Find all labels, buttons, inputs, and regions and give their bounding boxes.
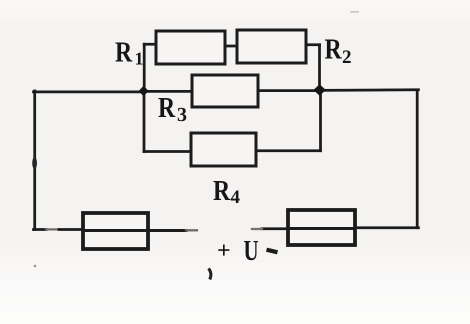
wire: left vertical bbox=[33, 91, 36, 230]
wire: faded end of left fuse wire bbox=[186, 229, 197, 231]
wire: bottom middle right of gap bbox=[262, 227, 289, 230]
resistor R2 bbox=[237, 30, 306, 63]
wire: through right fuse bbox=[288, 227, 355, 230]
wire: into R1 box bbox=[144, 43, 157, 46]
wire: connector R1-R2 bbox=[225, 45, 239, 48]
wire: top branch right vertical bbox=[318, 45, 321, 90]
wire: R4 branch right horizontal bbox=[255, 149, 321, 152]
wire: right node to R3 bbox=[258, 89, 320, 92]
wire: R4 branch right vertical bbox=[319, 91, 322, 151]
wire: bottom right bbox=[355, 226, 418, 229]
node B (right junction) bbox=[313, 84, 325, 96]
fuse left bbox=[83, 213, 148, 249]
fuse right bbox=[288, 210, 355, 245]
label R4 bbox=[213, 181, 239, 203]
label - (supply polarity) bbox=[267, 250, 278, 253]
wire: R2 box to top right vertical bbox=[306, 43, 320, 46]
wire: R4 branch left vertical bbox=[143, 91, 146, 152]
ink knot on left vertical wire bbox=[32, 157, 37, 169]
wire: right vertical bbox=[416, 90, 419, 228]
wire: through left fuse and out bbox=[83, 229, 186, 232]
label U (supply) bbox=[244, 241, 258, 260]
stray scan mark below U bbox=[209, 269, 211, 280]
label R3 bbox=[158, 98, 186, 121]
wire: left node to R3 bbox=[144, 90, 194, 93]
node A (left junction) bbox=[139, 86, 149, 96]
wire: bottom left to fuse part 2 bbox=[59, 228, 84, 231]
resistor R4 bbox=[191, 133, 256, 166]
label + (supply polarity) bbox=[218, 244, 229, 255]
resistor R1 bbox=[156, 31, 225, 64]
wire: bottom left to fuse bbox=[34, 228, 47, 231]
wire: main line right segment bbox=[320, 88, 419, 91]
faint dash top right bbox=[350, 11, 359, 13]
faint speck left bottom bbox=[34, 265, 37, 268]
resistor R3 bbox=[192, 75, 258, 107]
wire: faded start of supply right wire bbox=[252, 228, 262, 230]
wire: top branch left vertical bbox=[143, 44, 146, 91]
wire: faded piece of bottom left wire bbox=[46, 228, 59, 230]
wire: R4 branch left horizontal bbox=[144, 150, 193, 153]
wire: main line left segment bbox=[34, 91, 145, 94]
label R2 bbox=[325, 40, 351, 63]
label R1 bbox=[115, 43, 142, 65]
